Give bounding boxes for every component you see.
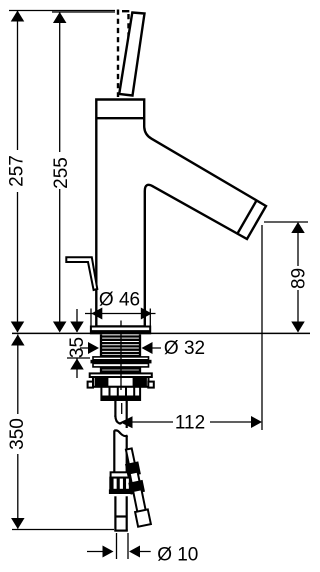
svg-text:112: 112 xyxy=(175,413,205,434)
svg-text:Ø 32: Ø 32 xyxy=(164,338,205,359)
svg-text:89: 89 xyxy=(289,268,310,289)
svg-text:257: 257 xyxy=(7,155,28,187)
svg-text:350: 350 xyxy=(7,418,28,450)
svg-text:35: 35 xyxy=(67,337,88,358)
svg-text:Ø 46: Ø 46 xyxy=(99,290,140,311)
svg-text:255: 255 xyxy=(51,157,72,189)
svg-text:Ø 10: Ø 10 xyxy=(157,545,198,566)
